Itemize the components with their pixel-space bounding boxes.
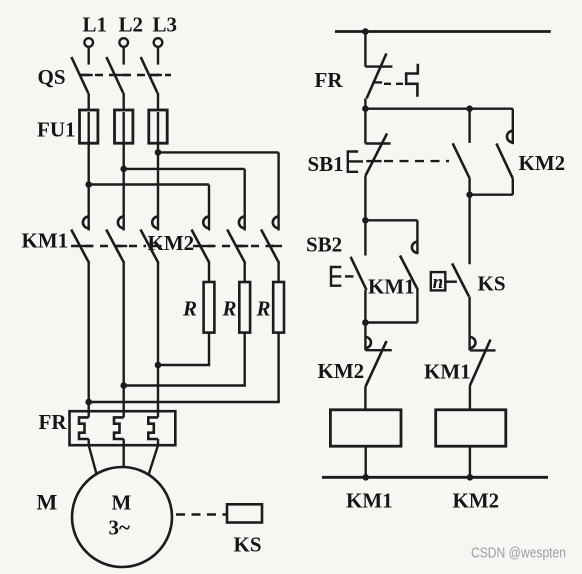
- svg-text:KM1: KM1: [346, 489, 393, 513]
- wire tap phase1 horizontal: [89, 183, 209, 185]
- switch QS pole 1 tick: [80, 74, 93, 76]
- svg-text:KS: KS: [234, 533, 262, 557]
- fuse FU1-2: [115, 110, 133, 143]
- QS coupling dashed link: [81, 74, 171, 76]
- wire resistor R2 return: [124, 384, 246, 386]
- contact KM1 pole 1 bowl: [83, 217, 89, 229]
- wire phase 1 fuse to KM1 contact: [87, 112, 89, 231]
- contact KM1 pole 2 blade: [106, 230, 124, 264]
- contact FR blade: [367, 54, 387, 99]
- contact KM2 pole 3 bowl: [273, 217, 279, 229]
- pushbutton SB2 actuator E: [331, 267, 341, 286]
- SB1 coupling dashed link: [384, 160, 449, 162]
- node tap phase2: [120, 166, 127, 173]
- FR heater element 1: [79, 417, 89, 439]
- wire KM2 to resistor R2: [243, 262, 245, 282]
- wire phase 2 fuse to KM1 contact: [122, 112, 124, 231]
- svg-text:FR: FR: [39, 410, 68, 434]
- node bottom rail right: [467, 474, 474, 481]
- svg-text:KS: KS: [478, 272, 506, 296]
- svg-text:R: R: [182, 297, 197, 321]
- wire KM2 to resistor R1: [208, 262, 210, 282]
- wire tap phase3 horizontal: [158, 151, 279, 153]
- fuse FU1-3: [149, 110, 167, 143]
- wire node A corner to KM2 contact: [512, 109, 514, 145]
- contact KM2 pole 2 blade: [227, 230, 245, 264]
- wire resistor R3 return: [89, 401, 280, 403]
- contact KM1 pole 2 tick: [115, 245, 127, 247]
- pushbutton SB1 tick: [365, 142, 390, 144]
- node A right: [466, 105, 473, 112]
- wire FR heater 2 stub: [122, 439, 124, 445]
- wire node B horizontal: [365, 219, 417, 221]
- wire resistor R1 down: [208, 333, 210, 365]
- node bottom rail left: [362, 474, 369, 481]
- KM contacts coupling dashed link right: [193, 245, 276, 247]
- contact KM1 pole 3 bowl: [152, 217, 158, 229]
- switch QS pole 3 blade: [141, 57, 158, 93]
- contact KM1 pole 3 tick: [149, 245, 161, 247]
- contact KM1 pole 1 blade: [71, 230, 89, 264]
- svg-text:n: n: [433, 272, 444, 293]
- node tap phase1: [85, 181, 92, 188]
- wire FR heater 3 stub: [157, 439, 159, 445]
- wire phase 3 KM1 to FR: [157, 263, 159, 417]
- contact KM1 bowl: [412, 242, 418, 253]
- contact KM1 pole 1 tick: [80, 245, 92, 247]
- wire group bottom to KM2 NC: [364, 323, 366, 351]
- switch QS pole 1 blade: [71, 57, 88, 93]
- contact KM2-NC bowl: [365, 337, 371, 348]
- svg-text:KM2: KM2: [519, 151, 566, 175]
- wire QS pole 3 to fuse: [157, 93, 159, 110]
- node R1 to phase3: [155, 362, 162, 369]
- contact KM1-NC blade: [470, 340, 491, 386]
- svg-text:M: M: [37, 490, 58, 515]
- terminal circle L3: [154, 38, 163, 47]
- contact KM1 pole 2 bowl: [118, 217, 124, 229]
- wire KM1 coil to bottom rail: [365, 446, 367, 477]
- wire KM1 contact down: [416, 290, 418, 323]
- wire QS pole 2 to fuse: [122, 93, 124, 110]
- svg-text:FU1: FU1: [37, 118, 76, 142]
- wire KM2 contact bottom connector: [470, 193, 513, 195]
- svg-text:L3: L3: [153, 13, 178, 37]
- speed switch KS box: [227, 504, 262, 522]
- resistor R1: [204, 282, 215, 333]
- terminal circle L1: [84, 38, 93, 47]
- svg-text:L1: L1: [83, 13, 108, 37]
- svg-text:R: R: [256, 297, 271, 321]
- wire L1 terminal to QS: [87, 47, 89, 65]
- wire node B to SB2: [364, 220, 366, 255]
- wire SB1-NO down to KS branch: [468, 178, 470, 264]
- contact KM2 pole 2 bowl: [239, 217, 245, 229]
- svg-text:FR: FR: [315, 68, 344, 92]
- svg-text:KM1: KM1: [424, 360, 471, 384]
- switch QS pole 2 tick: [115, 74, 128, 76]
- wire tap phase2 horizontal: [124, 168, 245, 170]
- contact SB1-NO blade: [453, 143, 470, 178]
- wire L3 terminal to QS: [157, 47, 159, 65]
- wire node A to SB1: [364, 109, 366, 144]
- wire tap phase2 vertical: [243, 169, 245, 231]
- wire KM2 to resistor R3: [277, 262, 279, 282]
- resistor R3: [273, 282, 284, 333]
- svg-text:M: M: [112, 491, 132, 515]
- wire FR contact to node A: [364, 98, 366, 108]
- thermal relay FR box: [70, 411, 176, 445]
- speed relay n box: [431, 272, 446, 290]
- node group bottom: [362, 319, 369, 326]
- mechanical dashed link motor to KS: [176, 513, 226, 515]
- wire KM2-NC to KM1 coil: [364, 387, 366, 410]
- wire phase 2 KM1 to FR: [122, 263, 124, 417]
- node R3 to phase1: [85, 399, 92, 406]
- contact KM2 pole 1 bowl: [203, 217, 209, 229]
- svg-text:L2: L2: [119, 13, 144, 37]
- svg-text:KM2: KM2: [453, 489, 500, 513]
- FR heater element 2: [114, 417, 124, 439]
- wire resistor R3 down: [277, 333, 279, 402]
- contact KM2 pole 2 tick: [236, 245, 248, 247]
- wire node A horizontal: [365, 107, 512, 109]
- FR trip dashed link: [384, 83, 406, 85]
- node KS branch top: [466, 191, 473, 198]
- contact KM2-NC tick: [365, 349, 391, 351]
- FR trip element symbol: [406, 64, 418, 97]
- wire FR to motor right: [148, 445, 158, 475]
- svg-text:KM1: KM1: [22, 229, 69, 253]
- fuse FU1-1: [80, 110, 98, 143]
- wire QS pole 1 to fuse: [87, 93, 89, 110]
- wire rail to FR contact: [364, 32, 366, 67]
- wire phase 3 fuse to KM1 contact: [157, 112, 159, 231]
- wire phase 1 KM1 to FR: [87, 263, 89, 417]
- contact KM2 pole 1 blade: [192, 230, 210, 264]
- wire node B corner to KM1 contact: [416, 220, 418, 254]
- svg-text:KM2: KM2: [148, 231, 195, 255]
- contact KM1-NC tick: [470, 349, 496, 351]
- top supply rail: [335, 30, 551, 33]
- svg-text:3~: 3~: [109, 516, 131, 540]
- svg-text:CSDN @wespten: CSDN @wespten: [471, 545, 566, 562]
- wire tap phase1 vertical: [208, 185, 210, 231]
- KM contacts coupling dashed link left: [71, 245, 146, 247]
- svg-text:SB2: SB2: [306, 233, 342, 257]
- resistor R2: [239, 282, 250, 333]
- contact KM2 pole 3 tick: [270, 245, 282, 247]
- wire group bottom connector: [365, 321, 417, 323]
- wire tap phase3 vertical: [277, 152, 279, 230]
- pushbutton SB1 blade: [365, 134, 387, 176]
- svg-text:QS: QS: [38, 65, 66, 89]
- SB2 actuator stem: [345, 275, 353, 277]
- node tap phase3: [155, 149, 162, 156]
- contact KM2 blade: [496, 144, 512, 179]
- contact KM1 blade: [400, 256, 418, 291]
- wire SB2 to group bottom: [364, 290, 366, 323]
- wire FR heater 1 stub: [87, 439, 89, 445]
- wire SB1 to node B: [364, 176, 366, 220]
- contact KM1-NC bowl: [470, 337, 476, 348]
- bottom supply rail: [322, 476, 548, 479]
- contact KM2 pole 3 blade: [261, 230, 279, 264]
- wire KM2 contact down: [512, 179, 514, 195]
- pushbutton SB2 blade: [351, 257, 367, 290]
- switch QS pole 2 blade: [106, 57, 123, 93]
- contact KM1 pole 3 blade: [141, 230, 159, 264]
- wire resistor R1 return: [158, 364, 210, 366]
- contact FR tick: [365, 65, 392, 67]
- wire node A to SB1-NO: [468, 109, 470, 143]
- pushbutton SB1 actuator E: [348, 152, 363, 172]
- n box stem: [446, 281, 457, 283]
- terminal circle L2: [119, 38, 128, 47]
- node B: [362, 217, 369, 224]
- svg-text:KM1: KM1: [368, 275, 415, 299]
- contact KM2 bowl: [507, 131, 513, 143]
- contact FR trip crossbar: [373, 81, 383, 83]
- contact KM2-NC blade: [365, 341, 386, 387]
- svg-text:R: R: [222, 297, 237, 321]
- coil KM2: [436, 410, 506, 446]
- node R2 to phase2: [120, 382, 127, 389]
- wire FR to motor left: [89, 445, 97, 475]
- coil KM1: [330, 410, 401, 446]
- pushbutton SB1 mid tick: [366, 160, 381, 162]
- node top rail: [362, 28, 369, 35]
- svg-text:SB1: SB1: [308, 152, 344, 176]
- FR heater element 3: [148, 417, 158, 439]
- switch QS pole 3 tick: [150, 74, 163, 76]
- wire KM1-NC to KM2 coil: [469, 386, 471, 410]
- contact KM2 pole 1 tick: [200, 245, 212, 247]
- wire resistor R2 down: [243, 333, 245, 386]
- contact KS blade: [452, 263, 469, 296]
- wire KS to KM1-NC: [468, 296, 470, 350]
- wire FR to motor middle: [122, 445, 124, 467]
- node A left: [362, 105, 369, 112]
- svg-text:KM2: KM2: [318, 359, 365, 383]
- motor M circle: [72, 467, 172, 567]
- wire L2 terminal to QS: [122, 47, 124, 65]
- wire KM2 coil to bottom rail: [469, 446, 471, 477]
